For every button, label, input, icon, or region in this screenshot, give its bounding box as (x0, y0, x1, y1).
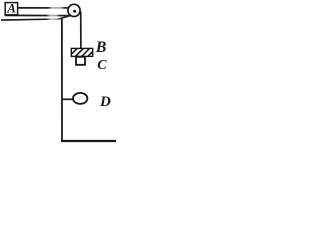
table slab bottom edge with wedge (1, 16, 70, 20)
ball D (73, 93, 87, 104)
block C (76, 57, 85, 65)
table leg (61, 19, 63, 142)
rod connecting leg to ball D (63, 98, 74, 100)
svg-text:A: A (6, 1, 16, 16)
pulley (68, 4, 80, 16)
block A (5, 3, 17, 15)
svg-text:B: B (95, 39, 107, 56)
block B (hatched) (71, 48, 92, 56)
string from A to pulley (18, 7, 69, 9)
svg-text:D: D (99, 94, 111, 110)
svg-text:C: C (97, 58, 107, 73)
table top surface line (5, 14, 72, 16)
string from pulley down to B (80, 12, 82, 49)
ground line (61, 140, 116, 142)
pulley axle (73, 10, 76, 13)
